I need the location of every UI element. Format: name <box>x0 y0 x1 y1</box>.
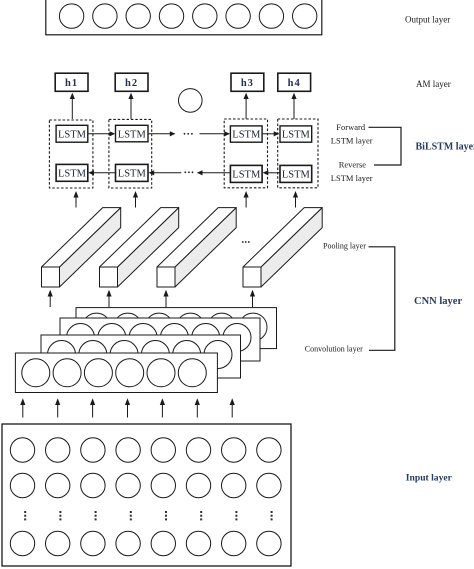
convolution feature map 1 (front) <box>15 353 217 393</box>
BiLSTM cell 2 dashed box <box>109 119 152 188</box>
wire arrow BiLSTM3 to h3 <box>244 93 249 119</box>
svg-text:LSTM: LSTM <box>282 170 311 181</box>
output layer neurons <box>59 4 317 28</box>
CNN bracket <box>369 247 395 350</box>
wire arrow conv to bar2 <box>106 290 111 307</box>
BiLSTM bracket <box>369 127 402 165</box>
wire arrow conv to bar3 <box>163 290 168 307</box>
wire arrow conv to bar1 <box>48 290 53 307</box>
svg-text:BiLSTM layer: BiLSTM layer <box>416 142 474 153</box>
svg-text:LSTM: LSTM <box>232 130 261 141</box>
reverse wire LSTM4 to LSTM3 <box>263 170 280 175</box>
reverse LSTM box 3 <box>230 165 262 182</box>
svg-text:LSTM layer: LSTM layer <box>331 135 373 145</box>
forward wire LSTM2 to dots <box>148 131 176 136</box>
wire arrow input to conv 3 <box>90 398 95 417</box>
wire arrow pooling to BiLSTM3 <box>244 191 249 208</box>
convolution feature map 3 <box>60 318 260 361</box>
svg-text:Reverse: Reverse <box>339 160 367 170</box>
wire arrow BiLSTM1 to h1 <box>70 93 75 119</box>
input neurons row 2 <box>10 473 281 497</box>
BiLSTM cell 4 dashed box <box>278 119 318 188</box>
forward LSTM box 3 <box>230 126 262 142</box>
svg-text:LSTM layer: LSTM layer <box>331 173 373 183</box>
svg-text:Pooling layer: Pooling layer <box>323 242 366 251</box>
forward wire dots to LSTM3 <box>200 131 231 136</box>
svg-text:Output layer: Output layer <box>405 15 450 25</box>
ellipsis circle between h2 and h3 <box>179 89 203 113</box>
wire arrow BiLSTM4 to h4 <box>291 93 296 119</box>
forward LSTM box 4 <box>280 126 312 142</box>
BiLSTM cell 1 dashed box <box>49 120 93 188</box>
convolution feature map 4 (back) <box>76 308 277 349</box>
svg-text:LSTM: LSTM <box>282 130 311 141</box>
forward row dots <box>184 133 193 135</box>
svg-text:CNN layer: CNN layer <box>414 296 462 307</box>
input layer box <box>2 424 291 566</box>
wire arrow input to conv 4 <box>125 398 130 417</box>
wire arrow input to conv 2 <box>55 398 60 417</box>
reverse wire LSTM3 to dots <box>197 170 231 175</box>
input vertical ellipsis dots <box>24 511 272 520</box>
BiLSTM cell 3 dashed box <box>224 119 267 188</box>
reverse LSTM box 2 <box>116 164 149 181</box>
pooling bar 2 <box>100 208 179 287</box>
forward LSTM box 2 <box>116 125 149 142</box>
pooling bar 4 <box>243 208 322 287</box>
wire arrow pooling to BiLSTM4 <box>293 191 298 208</box>
svg-text:LSTM: LSTM <box>58 169 87 180</box>
svg-text:LSTM: LSTM <box>118 169 147 180</box>
pooling bar 1 <box>42 208 121 287</box>
forward wire LSTM1 to LSTM2 <box>88 131 115 136</box>
wire arrow input to conv 6 <box>195 398 200 417</box>
AM box h4 <box>278 73 311 91</box>
wire arrow input to conv 5 <box>160 398 165 417</box>
pooling bar 3 <box>157 208 236 287</box>
svg-text:h3: h3 <box>241 78 254 89</box>
reverse row dots <box>184 171 193 173</box>
AM box h2 <box>115 73 148 91</box>
reverse wire dots to LSTM2 <box>149 170 182 175</box>
wire arrow input to conv 7 <box>230 398 235 417</box>
wire arrow pooling to BiLSTM1 <box>73 191 78 208</box>
wire arrow conv to bar4 <box>250 290 255 307</box>
pooling row dots <box>242 241 250 243</box>
convolution feature map 2 <box>41 335 241 378</box>
output layer box <box>46 0 322 35</box>
wire arrow input to conv 1 <box>20 398 25 417</box>
svg-text:h2: h2 <box>125 78 138 89</box>
input neurons row 1 <box>10 438 281 462</box>
forward LSTM box 1 <box>56 125 88 142</box>
svg-text:h1: h1 <box>65 78 78 89</box>
wire arrow pooling to BiLSTM2 <box>133 191 138 208</box>
svg-text:Convolution layer: Convolution layer <box>305 345 363 354</box>
svg-text:h4: h4 <box>288 78 301 89</box>
wire arrow BiLSTM2 to h2 <box>128 93 133 119</box>
svg-text:AM layer: AM layer <box>416 79 451 89</box>
reverse LSTM box 1 <box>56 164 88 181</box>
svg-text:LSTM: LSTM <box>58 130 87 141</box>
AM box h1 <box>55 73 88 91</box>
svg-text:Forward: Forward <box>336 122 366 132</box>
AM box h3 <box>231 73 264 91</box>
svg-text:LSTM: LSTM <box>118 130 147 141</box>
reverse wire LSTM2 to LSTM1 <box>88 170 115 175</box>
input neurons row 3 <box>10 531 281 555</box>
svg-text:Input layer: Input layer <box>406 473 453 484</box>
forward wire LSTM3 to LSTM4 <box>262 131 279 136</box>
svg-text:LSTM: LSTM <box>232 170 261 181</box>
reverse LSTM box 4 <box>280 165 312 182</box>
